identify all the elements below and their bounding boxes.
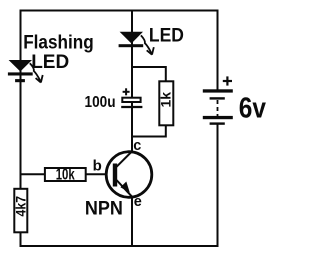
LED D2: cathode bar [119, 44, 144, 47]
svg-text:4k7: 4k7 [14, 196, 29, 217]
LED D1 flashing: flash arrow [30, 63, 43, 82]
svg-text:1k: 1k [158, 92, 174, 108]
svg-text:Flashing: Flashing [23, 32, 94, 54]
battery B1 polarity plus [223, 76, 232, 85]
transistor Q1 collector line [117, 151, 133, 167]
wire left rail lower [20, 233, 22, 246]
transistor Q1 circle [106, 152, 152, 198]
svg-text:10k: 10k [56, 166, 75, 183]
transistor Q1 emitter arrow [120, 182, 129, 193]
LED D1 flashing: cathode bar [8, 72, 33, 75]
capacitor C1 polarity plus [123, 88, 130, 95]
transistor Q1 base bar [113, 164, 117, 187]
svg-text:e: e [134, 194, 142, 210]
battery B1 cell2 long plate [203, 116, 233, 119]
wire bottom rail [20, 245, 219, 247]
transistor Q1 emitter line [117, 180, 133, 197]
svg-text:6v: 6v [239, 93, 266, 125]
wire right rail lower [217, 124, 219, 247]
wire right rail upper [217, 10, 219, 91]
wire left rail [20, 10, 22, 189]
wire middle branch upper [131, 10, 133, 98]
wire 1k top branch [132, 67, 166, 81]
battery B1 cell2 short plate [210, 122, 225, 124]
LED D2: flash arrow [141, 35, 154, 54]
capacitor C1 100u: minus plate [121, 106, 142, 108]
wire top rail [20, 10, 219, 12]
svg-text:100u: 100u [85, 94, 116, 111]
svg-text:NPN: NPN [85, 198, 123, 220]
svg-text:LED: LED [31, 51, 69, 73]
svg-text:b: b [93, 158, 102, 175]
resistor R3 10k body [45, 168, 86, 181]
battery B1 cell1 short plate [210, 97, 225, 99]
wire base branch right [86, 173, 114, 175]
wire 1k bottom branch [131, 126, 166, 137]
wire base branch left [21, 173, 46, 175]
LED D1 flashing: lower bar [15, 79, 25, 82]
svg-text:c: c [133, 138, 141, 154]
battery B1 dashed link [217, 100, 219, 116]
capacitor C1 100u: plus plate [122, 98, 140, 102]
battery B1 cell1 long plate [203, 89, 233, 92]
resistor R1 4k7 body [14, 189, 27, 233]
resistor R2 1k body [159, 81, 173, 125]
svg-text:LED: LED [149, 24, 184, 46]
wire middle branch cap to transistor [131, 103, 133, 152]
wire emitter to bottom rail [131, 197, 133, 246]
LED D1 flashing: triangle [9, 60, 32, 72]
LED D2: triangle [120, 32, 143, 44]
